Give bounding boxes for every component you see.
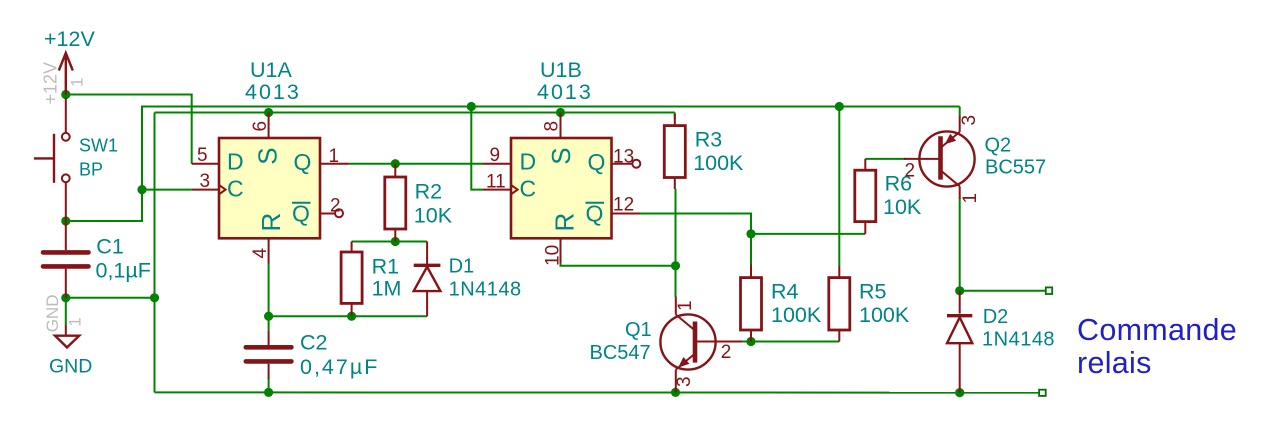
svg-text:C: C	[520, 176, 537, 202]
junction U1A R / C2 node	[264, 312, 273, 321]
junction D2 top / Q2 collector	[955, 286, 964, 295]
junction line A to R5	[835, 102, 844, 111]
svg-text:R5: R5	[859, 280, 887, 304]
wire U1B R pin 10 to Q1 collector node	[561, 264, 676, 266]
svg-text:100K: 100K	[859, 303, 910, 327]
resistor R1	[341, 242, 401, 317]
svg-text:1N4148: 1N4148	[982, 329, 1055, 351]
svg-text:2: 2	[905, 161, 916, 182]
junction U1B R at Q1 collector line	[671, 261, 680, 270]
svg-text:relais: relais	[1077, 346, 1152, 380]
junction R1 bottom node	[347, 312, 356, 321]
svg-text:R: R	[256, 213, 286, 232]
wire clock branch to U1A pin 3	[142, 189, 192, 191]
svg-text:9: 9	[490, 145, 501, 166]
wire GND bottom rail	[155, 391, 1040, 393]
svg-text:D: D	[520, 149, 537, 175]
svg-text:D1: D1	[449, 256, 475, 278]
svg-text:+12V: +12V	[41, 62, 61, 105]
op-amp U1B flip-flop body	[511, 58, 612, 238]
svg-text:R: R	[550, 213, 580, 232]
junction C2 bottom on rail	[264, 388, 273, 397]
node Commande relais label	[1077, 313, 1237, 380]
U1A pin 1 Q	[320, 163, 349, 165]
ground symbol GND	[43, 295, 93, 378]
svg-text:4013: 4013	[537, 80, 593, 104]
svg-text:Q: Q	[588, 149, 606, 175]
svg-text:1: 1	[960, 193, 981, 204]
svg-text:0,47µF: 0,47µF	[300, 355, 379, 379]
wire line A branch to R5 top	[838, 107, 840, 267]
svg-text:0,1µF: 0,1µF	[96, 259, 151, 283]
wire U1B pin 12 to R4 top	[640, 214, 751, 265]
junction +12V node	[61, 90, 70, 99]
svg-text:1N4148: 1N4148	[449, 279, 522, 301]
capacitor C1	[43, 221, 151, 298]
svg-text:Q: Q	[586, 201, 604, 227]
resistor R5	[829, 266, 910, 342]
svg-text:10K: 10K	[883, 195, 922, 219]
junction line A to U1B clock	[467, 102, 476, 111]
U1A pin 2 Qbar unconnected	[320, 213, 335, 215]
wire C2 bottom to rail	[268, 378, 270, 392]
svg-text:10: 10	[543, 245, 564, 266]
junction R2 top on Q line	[391, 159, 400, 168]
svg-text:Q2: Q2	[985, 135, 1012, 157]
svg-text:D2: D2	[983, 306, 1009, 328]
svg-text:D: D	[227, 149, 244, 175]
svg-text:3: 3	[200, 171, 211, 192]
wire GND vertical left	[154, 113, 156, 393]
transistor Q1 BC547	[590, 297, 743, 393]
svg-text:S: S	[546, 147, 576, 164]
wire GND line B horizontal	[155, 112, 675, 114]
svg-text:2: 2	[721, 342, 732, 363]
resistor R4	[741, 265, 822, 342]
svg-text:GND: GND	[49, 356, 92, 378]
svg-text:6: 6	[250, 121, 271, 132]
wire line A end down to Q2 emitter pin	[959, 107, 961, 118]
wire clock branch to U1B pin 11	[471, 107, 483, 190]
U1B pin 13 Q unconnected	[612, 163, 632, 165]
resistor R2	[385, 164, 453, 242]
svg-text:10K: 10K	[414, 204, 453, 228]
wire GND symbol stub	[65, 298, 67, 325]
junction D2 bottom on rail	[955, 388, 964, 397]
svg-text:2: 2	[330, 196, 341, 217]
svg-text:13: 13	[613, 147, 634, 168]
power +12V symbol	[41, 27, 96, 105]
svg-text:Q: Q	[292, 201, 310, 227]
svg-text:4: 4	[250, 248, 271, 259]
U1B pin 10 R	[560, 238, 562, 263]
wire R4 node to R6 bottom	[751, 233, 865, 235]
svg-text:100K: 100K	[771, 303, 822, 327]
junction SW1 bottom node	[61, 216, 70, 225]
junction R2 bottom node	[391, 237, 400, 246]
svg-text:R3: R3	[695, 128, 723, 152]
svg-text:Q: Q	[294, 149, 312, 175]
node upper relay terminal	[1046, 287, 1052, 294]
U1B pin 12 Qbar	[612, 213, 641, 215]
svg-text:1M: 1M	[372, 277, 402, 301]
svg-text:BC547: BC547	[590, 342, 651, 364]
resistor R3	[664, 114, 744, 189]
junction Q1 base / R4 bottom	[746, 337, 755, 346]
svg-text:R1: R1	[372, 255, 399, 279]
junction U1A S pin on line B	[264, 108, 273, 117]
wire Q2 base to R6 top	[865, 158, 906, 160]
wire net SW1/clock line A horizontal	[66, 107, 960, 222]
svg-text:100K: 100K	[693, 151, 744, 175]
svg-text:11: 11	[486, 172, 506, 193]
svg-text:S: S	[253, 147, 283, 164]
switch SW1	[34, 98, 118, 221]
svg-text:BP: BP	[79, 160, 103, 180]
junction clock node at U1A	[137, 185, 146, 194]
wire line B end down to R3 top	[674, 113, 676, 120]
svg-text:U1B: U1B	[540, 58, 582, 82]
svg-text:R4: R4	[771, 280, 799, 304]
svg-text:SW1: SW1	[79, 136, 118, 156]
U1A pin 4 R	[268, 238, 270, 263]
svg-text:Q1: Q1	[625, 319, 652, 341]
svg-text:1: 1	[329, 146, 340, 167]
diode D2	[947, 291, 1055, 393]
diode D1	[414, 242, 522, 317]
U1B pin 8 S	[560, 113, 562, 139]
transistor Q2 BC557	[904, 115, 1046, 204]
node lower relay terminal	[1039, 390, 1046, 396]
svg-text:12: 12	[613, 195, 634, 216]
U1A pin 5 D	[192, 163, 219, 165]
junction GND vertical at C1 wire	[150, 293, 159, 302]
wire U1A R pin down through C2 node	[268, 264, 270, 332]
wire D2 top node to upper terminal	[960, 290, 1046, 292]
svg-text:GND: GND	[43, 295, 62, 333]
U1B pin 9 D	[483, 163, 511, 165]
wire Q1 base to R4/R5 bottoms	[742, 341, 839, 343]
svg-text:Commande: Commande	[1077, 313, 1237, 347]
svg-text:C: C	[227, 176, 244, 202]
svg-text:+12V: +12V	[44, 27, 95, 51]
svg-text:1: 1	[66, 317, 85, 326]
U1B pin 11 C clock	[483, 189, 511, 191]
svg-text:U1A: U1A	[250, 58, 292, 82]
wire C1 bottom to GND vertical	[66, 297, 155, 299]
svg-text:8: 8	[542, 121, 563, 132]
svg-text:BC557: BC557	[985, 157, 1046, 179]
wire R2 bottom node to R1 and D1	[352, 241, 428, 243]
svg-text:4013: 4013	[245, 80, 301, 104]
svg-text:R2: R2	[415, 180, 442, 204]
U1A pin 6 S	[268, 113, 270, 139]
svg-text:1: 1	[68, 78, 87, 87]
U1A pin 3 C clock	[192, 189, 219, 191]
svg-text:3: 3	[959, 115, 980, 126]
junction Q1 emitter on rail	[671, 388, 680, 397]
svg-text:C2: C2	[300, 331, 327, 355]
capacitor C2	[246, 331, 380, 380]
svg-text:3: 3	[674, 376, 695, 387]
svg-text:1: 1	[675, 300, 696, 311]
op-amp U1A flip-flop body	[219, 58, 320, 238]
svg-text:C1: C1	[96, 235, 123, 259]
wire U1A Q to R2 and U1B D	[349, 163, 484, 165]
svg-text:5: 5	[197, 145, 208, 166]
wire R1/D1 bottom node horizontal	[269, 315, 428, 317]
wire R3 bottom to Q1 collector	[675, 189, 677, 297]
junction C1 bottom GND node	[61, 293, 70, 302]
resistor R6	[855, 159, 922, 234]
wire Q2 collector down to D2 top node	[959, 198, 961, 291]
junction R4 top / R6 node	[746, 229, 755, 238]
junction U1B S pin on line B	[556, 108, 565, 117]
wire +12V rail to D pin of U1A	[66, 95, 192, 164]
